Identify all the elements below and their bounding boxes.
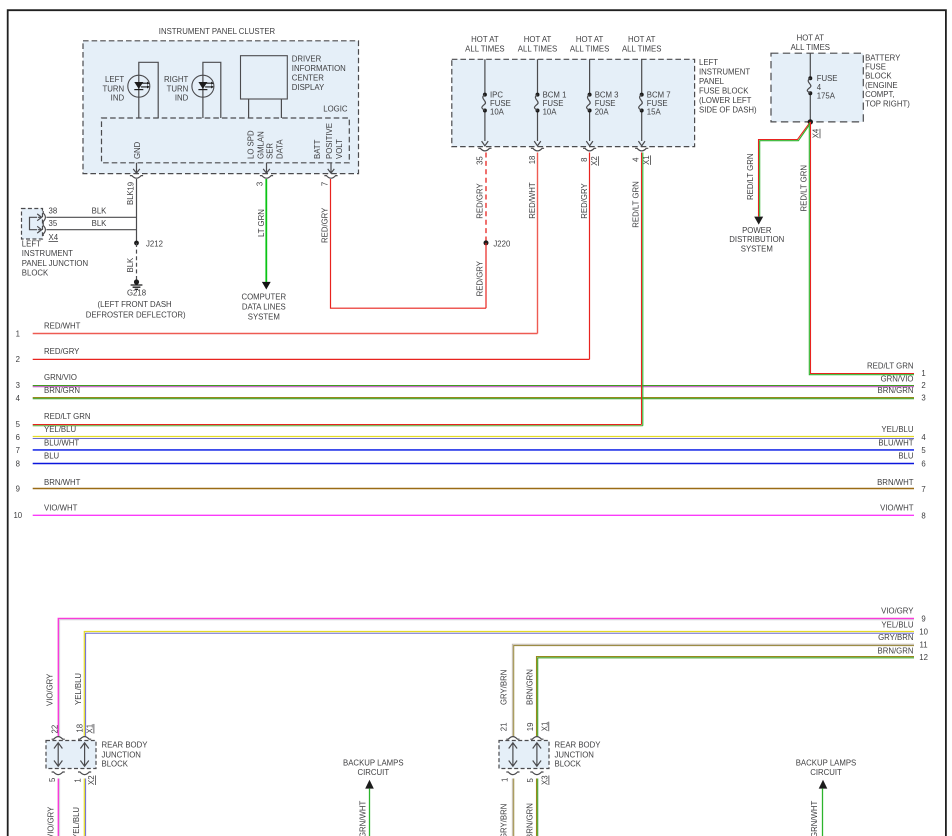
wire YEL/BLU below block	[84, 779, 85, 836]
wire RED/GRY fuse 8 to row 2	[589, 153, 591, 360]
left instrument panel fuse block label	[699, 58, 757, 114]
svg-text:20A: 20A	[595, 107, 610, 116]
backup lamps circuit 2 arrow	[819, 780, 828, 789]
svg-text:CIRCUIT: CIRCUIT	[810, 768, 842, 777]
wire 4 BRN/GRN row	[33, 398, 914, 399]
svg-text:19: 19	[526, 723, 535, 732]
fuse BCM 7 15A	[632, 59, 671, 165]
svg-text:ALL TIMES: ALL TIMES	[622, 45, 661, 54]
rear body junction block right	[499, 737, 549, 775]
wire 10 VIO/WHT row	[33, 514, 914, 516]
svg-text:38: 38	[49, 207, 58, 216]
rear body junction block left	[46, 737, 96, 775]
svg-text:2: 2	[16, 355, 20, 364]
svg-text:35: 35	[49, 219, 58, 228]
svg-text:REAR BODY: REAR BODY	[555, 741, 602, 750]
pin BATT POSITIVE VOLT label	[313, 123, 344, 159]
svg-text:BLU/WHT: BLU/WHT	[44, 438, 79, 447]
svg-text:REAR BODY: REAR BODY	[102, 741, 149, 750]
svg-text:X4: X4	[812, 128, 821, 138]
svg-text:ALL TIMES: ALL TIMES	[570, 45, 609, 54]
svg-text:HOT AT: HOT AT	[797, 34, 825, 43]
wire GRY/BRN row	[512, 644, 914, 736]
svg-text:BRN/WHT: BRN/WHT	[877, 478, 914, 487]
computer data lines system label	[241, 293, 286, 322]
wire VIO/GRY row	[58, 619, 914, 737]
svg-text:LOGIC: LOGIC	[323, 105, 348, 114]
rear body junction block left label	[102, 741, 149, 769]
wire 7 BLU/WHT row	[33, 449, 914, 451]
wire GRN/WHT circuit 2	[822, 789, 824, 836]
svg-text:FUSE BLOCK: FUSE BLOCK	[699, 87, 749, 96]
svg-text:RED/WHT: RED/WHT	[44, 321, 81, 330]
svg-text:(LOWER LEFT: (LOWER LEFT	[699, 96, 752, 105]
LED left turn label	[102, 75, 124, 102]
logic box	[102, 105, 350, 163]
wire BRN/GRN below block	[537, 779, 538, 836]
svg-text:YEL/BLU: YEL/BLU	[44, 425, 76, 434]
svg-text:VIO/WHT: VIO/WHT	[44, 503, 78, 512]
svg-text:VIO/GRY: VIO/GRY	[45, 673, 54, 706]
wire 5 RED/LT GRN row	[33, 425, 643, 426]
svg-text:4: 4	[632, 157, 641, 162]
svg-text:ALL TIMES: ALL TIMES	[465, 45, 504, 54]
svg-text:YEL/BLU: YEL/BLU	[74, 673, 83, 705]
svg-text:RED/GRY: RED/GRY	[321, 207, 330, 243]
svg-text:BATT: BATT	[313, 139, 322, 159]
battery fuse block label	[865, 54, 910, 109]
wire RED/WHT fuse 18 to row 1	[537, 153, 539, 334]
svg-text:5: 5	[16, 420, 21, 429]
left instrument panel fuse block box	[452, 59, 695, 146]
svg-text:FUSE: FUSE	[817, 74, 838, 83]
svg-text:9: 9	[921, 615, 925, 624]
svg-text:RED/GRY: RED/GRY	[580, 183, 589, 219]
svg-text:BLOCK: BLOCK	[102, 760, 129, 769]
wire BLK pin 38 to GND wire	[46, 216, 136, 218]
svg-text:RED/LT GRN: RED/LT GRN	[746, 154, 755, 201]
battery fuse block box	[771, 53, 863, 122]
wire 6 YEL/BLU row	[33, 437, 914, 439]
svg-text:X1: X1	[86, 724, 95, 734]
svg-text:RED/LT GRN: RED/LT GRN	[799, 165, 808, 212]
svg-text:3: 3	[256, 182, 265, 186]
pin 19 connector	[127, 163, 143, 191]
svg-text:X2: X2	[590, 156, 599, 166]
svg-text:7: 7	[16, 446, 20, 455]
svg-text:YEL/BLU: YEL/BLU	[881, 425, 913, 434]
wire 2 RED/GRY row	[33, 358, 590, 360]
svg-text:5: 5	[48, 777, 57, 782]
wire LT GRN pin 3 to computer data lines	[265, 179, 267, 282]
svg-text:SIDE OF DASH): SIDE OF DASH)	[699, 106, 757, 115]
splice J220	[484, 239, 511, 248]
power distribution system label	[729, 226, 784, 253]
svg-text:COMPT,: COMPT,	[865, 90, 894, 99]
ground G218	[131, 279, 143, 289]
fuse BCM 1 10A	[528, 59, 567, 164]
svg-text:HOT AT: HOT AT	[628, 35, 656, 44]
svg-text:RED/GRY: RED/GRY	[476, 183, 485, 219]
wire VIO/GRY below block	[58, 779, 59, 836]
svg-text:RIGHT: RIGHT	[164, 75, 188, 84]
svg-text:6: 6	[16, 433, 20, 442]
svg-text:10: 10	[13, 511, 22, 520]
splice J212	[134, 240, 163, 249]
svg-text:18: 18	[75, 724, 84, 733]
backup lamps circuit 1 arrow	[365, 780, 374, 789]
svg-text:J220: J220	[493, 239, 511, 248]
svg-text:INSTRUMENT: INSTRUMENT	[699, 68, 750, 77]
svg-text:J212: J212	[146, 240, 163, 249]
computer data lines arrow	[262, 282, 271, 290]
svg-text:BACKUP LAMPS: BACKUP LAMPS	[343, 759, 404, 768]
svg-text:35: 35	[475, 156, 484, 165]
svg-text:RED/GRY: RED/GRY	[44, 347, 80, 356]
svg-text:INSTRUMENT: INSTRUMENT	[22, 249, 73, 258]
svg-text:BRN/GRN: BRN/GRN	[526, 669, 535, 705]
svg-text:GMLAN: GMLAN	[257, 131, 266, 159]
left instrument panel junction block	[22, 209, 46, 240]
svg-text:LO SPD: LO SPD	[247, 130, 256, 159]
svg-text:G218: G218	[127, 289, 146, 298]
svg-text:DISPLAY: DISPLAY	[292, 83, 325, 92]
svg-text:VIO/GRY: VIO/GRY	[881, 607, 914, 616]
wire RED/LT GRN fuse 4 to row 5	[642, 153, 643, 426]
svg-text:GRY/BRN: GRY/BRN	[499, 804, 508, 836]
svg-text:18: 18	[528, 156, 537, 165]
rear body junction block right label	[555, 741, 602, 769]
junction X4 node	[808, 119, 813, 124]
svg-text:RED/WHT: RED/WHT	[528, 182, 537, 219]
svg-text:RED/LT GRN: RED/LT GRN	[44, 412, 91, 421]
svg-text:JUNCTION: JUNCTION	[102, 751, 141, 760]
svg-text:BLOCK: BLOCK	[555, 760, 582, 769]
svg-text:TOP RIGHT): TOP RIGHT)	[865, 99, 910, 108]
svg-text:BLU: BLU	[44, 452, 60, 461]
svg-text:FUSE: FUSE	[865, 63, 886, 72]
svg-text:LEFT: LEFT	[105, 75, 124, 84]
svg-text:BATTERY: BATTERY	[865, 54, 901, 63]
wire RED/GRY pin 7 to J220 leg	[331, 179, 487, 308]
svg-text:175A: 175A	[817, 92, 836, 101]
driver information center display U1	[241, 56, 288, 118]
LED right turn indicator	[192, 62, 221, 118]
svg-text:BRN/GRN: BRN/GRN	[878, 386, 914, 395]
svg-text:BLU: BLU	[898, 452, 914, 461]
instrument panel cluster box	[83, 41, 359, 174]
svg-text:TURN: TURN	[167, 84, 189, 93]
svg-text:4: 4	[921, 433, 926, 442]
svg-text:10: 10	[919, 628, 928, 637]
svg-text:PANEL: PANEL	[699, 77, 725, 86]
svg-text:GRN/VIO: GRN/VIO	[881, 374, 914, 383]
svg-text:ALL TIMES: ALL TIMES	[518, 45, 557, 54]
svg-text:(LEFT FRONT DASH: (LEFT FRONT DASH	[97, 300, 171, 309]
svg-text:X1: X1	[642, 155, 651, 165]
svg-text:9: 9	[16, 485, 20, 494]
wire BLK J212 to ground	[136, 243, 138, 280]
wire 1 RED/WHT row	[33, 333, 538, 335]
svg-text:PANEL JUNCTION: PANEL JUNCTION	[22, 259, 88, 268]
driver information center display label	[292, 55, 346, 93]
svg-text:DEFROSTER DEFLECTOR): DEFROSTER DEFLECTOR)	[86, 310, 186, 319]
svg-text:BLK: BLK	[92, 219, 108, 228]
svg-text:X1: X1	[540, 722, 549, 732]
svg-text:INFORMATION: INFORMATION	[292, 64, 346, 73]
wire RED/LT GRN to power distribution	[759, 122, 811, 217]
svg-text:DATA: DATA	[275, 139, 284, 159]
hot at all times labels left fuse block	[465, 35, 661, 54]
backup lamps circuit 1 label	[343, 759, 404, 777]
fuse BCM 3 20A	[580, 59, 619, 166]
svg-text:BLK: BLK	[126, 189, 135, 205]
svg-text:POWER: POWER	[742, 226, 772, 235]
svg-text:X4: X4	[49, 233, 59, 242]
svg-text:HOT AT: HOT AT	[576, 35, 604, 44]
svg-text:5: 5	[921, 446, 926, 455]
svg-text:RED/LT GRN: RED/LT GRN	[632, 181, 641, 228]
svg-text:10A: 10A	[490, 107, 505, 116]
svg-text:22: 22	[50, 725, 59, 734]
svg-text:DISTRIBUTION: DISTRIBUTION	[729, 235, 784, 244]
svg-text:INSTRUMENT PANEL CLUSTER: INSTRUMENT PANEL CLUSTER	[159, 27, 276, 36]
svg-text:SER: SER	[265, 143, 274, 159]
backup lamps circuit 2 label	[796, 759, 857, 777]
svg-text:DATA LINES: DATA LINES	[242, 303, 286, 312]
wire GRY/BRN below block	[512, 779, 513, 836]
svg-text:IND: IND	[111, 93, 125, 102]
wire GRN/WHT circuit 1	[369, 789, 371, 836]
LED left turn indicator	[128, 62, 158, 118]
wire BLK pin 35 to GND wire	[46, 229, 136, 231]
svg-text:BLOCK: BLOCK	[865, 72, 892, 81]
svg-text:1: 1	[501, 778, 510, 782]
svg-text:GRN/WHT: GRN/WHT	[810, 801, 819, 836]
svg-text:GRN/VIO: GRN/VIO	[44, 373, 77, 382]
wire RED/GRY J220 down	[485, 243, 487, 308]
svg-text:YEL/BLU: YEL/BLU	[881, 620, 913, 629]
svg-text:HOT AT: HOT AT	[524, 35, 552, 44]
svg-text:12: 12	[919, 653, 928, 662]
fuse IPC 10A	[475, 59, 510, 165]
pin LO SPD GMLAN SER DATA label	[247, 130, 285, 159]
svg-text:TURN: TURN	[102, 84, 124, 93]
svg-text:1: 1	[921, 369, 925, 378]
svg-text:3: 3	[16, 381, 20, 390]
svg-text:BRN/GRN: BRN/GRN	[44, 386, 80, 395]
svg-text:LEFT: LEFT	[22, 240, 41, 249]
svg-text:SYSTEM: SYSTEM	[741, 244, 773, 253]
svg-text:15A: 15A	[647, 107, 662, 116]
svg-text:YEL/BLU: YEL/BLU	[72, 807, 81, 836]
svg-text:8: 8	[921, 511, 925, 520]
svg-text:VOLT: VOLT	[335, 139, 344, 159]
svg-text:VIO/WHT: VIO/WHT	[880, 503, 914, 512]
svg-text:SYSTEM: SYSTEM	[248, 313, 280, 322]
svg-text:8: 8	[580, 158, 589, 162]
svg-text:DRIVER: DRIVER	[292, 55, 322, 64]
svg-text:BLK: BLK	[126, 257, 135, 273]
svg-text:BRN/GRN: BRN/GRN	[526, 803, 535, 836]
pin 7 connector	[321, 163, 338, 186]
wire BRN/GRN row 12	[537, 657, 915, 737]
svg-text:BLOCK: BLOCK	[22, 269, 49, 278]
wire RED/GRY dashed fuse 35 to J220	[485, 153, 487, 243]
svg-text:COMPUTER: COMPUTER	[241, 293, 286, 302]
svg-text:X2: X2	[87, 775, 96, 785]
svg-text:1: 1	[73, 778, 82, 782]
svg-text:CIRCUIT: CIRCUIT	[357, 768, 389, 777]
svg-text:VIO/GRY: VIO/GRY	[46, 806, 55, 836]
svg-text:GRN/WHT: GRN/WHT	[358, 801, 367, 836]
wire 9 BRN/WHT row	[33, 488, 914, 490]
LED right turn label	[164, 75, 189, 102]
svg-text:HOT AT: HOT AT	[471, 35, 499, 44]
svg-text:5: 5	[526, 778, 535, 783]
svg-text:BLU/WHT: BLU/WHT	[878, 438, 913, 447]
svg-text:8: 8	[16, 459, 20, 468]
wire BLK from pin 19	[136, 179, 138, 243]
svg-text:BLK: BLK	[92, 207, 108, 216]
svg-text:BRN/WHT: BRN/WHT	[44, 478, 81, 487]
svg-text:7: 7	[321, 182, 330, 186]
svg-text:CENTER: CENTER	[292, 74, 324, 83]
svg-text:(ENGINE: (ENGINE	[865, 81, 898, 90]
svg-text:4: 4	[16, 394, 21, 403]
svg-text:BACKUP LAMPS: BACKUP LAMPS	[796, 759, 857, 768]
svg-text:LT GRN: LT GRN	[257, 209, 266, 237]
hot at all times label battery	[791, 34, 830, 53]
fuse 4 175A	[807, 53, 837, 122]
pin 3 connector	[256, 163, 274, 186]
wire 3 GRN/VIO row	[33, 386, 914, 387]
svg-text:GND: GND	[133, 141, 142, 159]
svg-text:JUNCTION: JUNCTION	[555, 751, 594, 760]
svg-text:11: 11	[920, 640, 928, 649]
svg-text:1: 1	[16, 330, 20, 339]
svg-text:3: 3	[921, 394, 925, 403]
svg-text:6: 6	[921, 460, 925, 469]
svg-text:POSITIVE: POSITIVE	[325, 123, 334, 159]
wire 8 BLU row	[33, 463, 914, 465]
svg-text:19: 19	[127, 182, 136, 191]
power distribution arrow	[754, 217, 763, 225]
svg-text:21: 21	[499, 723, 508, 732]
svg-text:RED/LT GRN: RED/LT GRN	[867, 362, 914, 371]
ground G218 label	[86, 289, 186, 320]
svg-text:RED/GRY: RED/GRY	[476, 260, 485, 296]
wire RED/LT GRN battery to right row 1	[809, 122, 914, 375]
svg-text:2: 2	[921, 381, 925, 390]
svg-text:IND: IND	[175, 93, 189, 102]
wire YEL/BLU row 10	[84, 632, 914, 737]
svg-text:GRY/BRN: GRY/BRN	[878, 633, 913, 642]
svg-text:ALL TIMES: ALL TIMES	[791, 43, 830, 52]
svg-text:GRY/BRN: GRY/BRN	[499, 670, 508, 705]
svg-text:7: 7	[921, 485, 925, 494]
left instrument panel junction block label	[22, 240, 88, 278]
svg-text:X3: X3	[541, 775, 550, 785]
svg-text:LEFT: LEFT	[699, 58, 718, 67]
svg-text:10A: 10A	[543, 107, 558, 116]
svg-text:BRN/GRN: BRN/GRN	[878, 647, 914, 656]
